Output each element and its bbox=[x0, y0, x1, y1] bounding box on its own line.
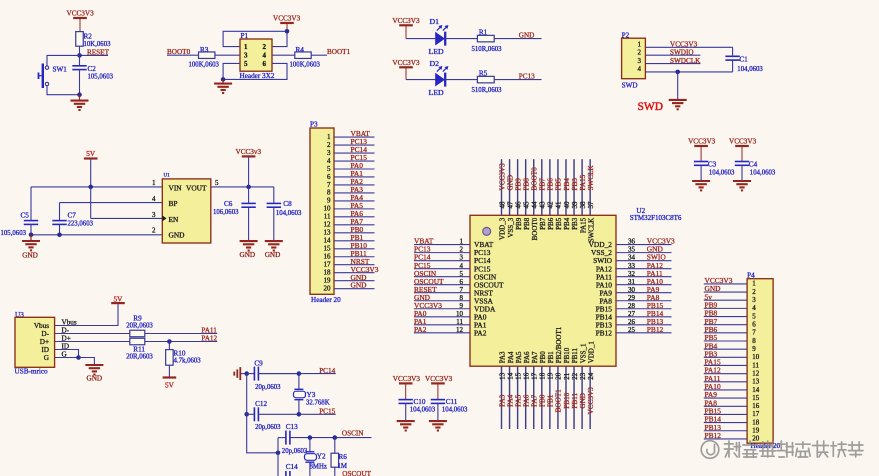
svg-text:OSCOUT: OSCOUT bbox=[342, 470, 371, 476]
svg-text:D+: D+ bbox=[40, 338, 49, 346]
svg-text:C14: C14 bbox=[286, 463, 298, 471]
svg-text:5: 5 bbox=[244, 60, 248, 68]
svg-text:20R,0603: 20R,0603 bbox=[126, 323, 153, 330]
svg-text:R9: R9 bbox=[133, 315, 142, 323]
svg-text:38: 38 bbox=[579, 201, 587, 209]
svg-text:GND: GND bbox=[519, 32, 535, 40]
svg-text:44: 44 bbox=[531, 201, 539, 209]
svg-text:39: 39 bbox=[571, 201, 579, 209]
svg-text:106,0603: 106,0603 bbox=[213, 209, 239, 216]
svg-text:2: 2 bbox=[752, 288, 756, 296]
svg-text:47: 47 bbox=[506, 201, 514, 209]
svg-text:21: 21 bbox=[563, 372, 571, 380]
svg-text:105,0603: 105,0603 bbox=[1, 230, 27, 237]
svg-text:GND: GND bbox=[240, 251, 256, 259]
svg-text:36: 36 bbox=[628, 238, 636, 246]
svg-text:4.7k,0603: 4.7k,0603 bbox=[174, 358, 202, 365]
svg-text:PB8: PB8 bbox=[522, 178, 530, 191]
svg-text:GND: GND bbox=[22, 251, 38, 259]
svg-text:OSCIN: OSCIN bbox=[342, 429, 364, 437]
svg-text:8: 8 bbox=[460, 294, 464, 302]
svg-text:D-: D- bbox=[41, 330, 49, 338]
svg-text:11: 11 bbox=[752, 361, 759, 369]
svg-text:C7: C7 bbox=[68, 212, 77, 220]
svg-text:PB2/BOOT1: PB2/BOOT1 bbox=[555, 326, 563, 363]
svg-text:PB0: PB0 bbox=[539, 351, 547, 364]
svg-text:PA15: PA15 bbox=[579, 174, 587, 190]
svg-text:C3: C3 bbox=[708, 160, 717, 168]
svg-text:17: 17 bbox=[752, 410, 760, 418]
svg-text:13: 13 bbox=[324, 229, 332, 237]
svg-text:C9: C9 bbox=[254, 360, 263, 368]
svg-text:VDD_1: VDD_1 bbox=[587, 341, 595, 364]
svg-text:104,0603: 104,0603 bbox=[737, 66, 763, 73]
svg-text:PB5: PB5 bbox=[555, 217, 563, 230]
svg-text:VCC3V3: VCC3V3 bbox=[670, 41, 698, 49]
svg-text:104,0603: 104,0603 bbox=[442, 407, 468, 414]
svg-text:5: 5 bbox=[215, 179, 219, 187]
svg-text:30: 30 bbox=[628, 286, 636, 294]
svg-text:34: 34 bbox=[628, 254, 636, 262]
svg-text:PA5: PA5 bbox=[514, 394, 522, 407]
svg-text:12: 12 bbox=[752, 369, 760, 377]
svg-text:4: 4 bbox=[152, 195, 156, 203]
svg-text:1: 1 bbox=[152, 179, 156, 187]
svg-text:PB11: PB11 bbox=[571, 347, 579, 363]
svg-text:PA7: PA7 bbox=[531, 351, 539, 363]
svg-text:D1: D1 bbox=[430, 17, 440, 26]
svg-text:10: 10 bbox=[752, 353, 760, 361]
svg-text:PA2: PA2 bbox=[474, 328, 487, 337]
svg-text:SWD: SWD bbox=[622, 82, 638, 90]
svg-text:BOOT0: BOOT0 bbox=[531, 167, 539, 191]
svg-text:C11: C11 bbox=[446, 398, 458, 406]
svg-text:VCC3V3: VCC3V3 bbox=[587, 387, 595, 415]
svg-text:17: 17 bbox=[531, 372, 539, 380]
svg-text:PB0: PB0 bbox=[539, 394, 547, 407]
svg-text:3: 3 bbox=[327, 149, 331, 157]
svg-text:1: 1 bbox=[460, 238, 464, 246]
svg-text:VIN: VIN bbox=[169, 183, 183, 192]
svg-text:5: 5 bbox=[327, 165, 331, 173]
svg-text:R1: R1 bbox=[479, 28, 488, 36]
svg-text:VCC3v3: VCC3v3 bbox=[236, 148, 262, 156]
svg-text:23: 23 bbox=[579, 372, 587, 380]
svg-text:9: 9 bbox=[327, 197, 331, 205]
svg-text:GND: GND bbox=[351, 281, 368, 290]
svg-text:19: 19 bbox=[547, 372, 555, 380]
svg-text:15: 15 bbox=[324, 245, 332, 253]
svg-text:3: 3 bbox=[638, 57, 642, 65]
svg-text:4: 4 bbox=[327, 157, 331, 165]
svg-text:3: 3 bbox=[244, 52, 248, 60]
svg-text:29: 29 bbox=[628, 294, 636, 302]
svg-text:8: 8 bbox=[327, 189, 331, 197]
svg-text:SWCLK: SWCLK bbox=[587, 165, 595, 191]
svg-text:PA3: PA3 bbox=[499, 351, 507, 363]
svg-text:2: 2 bbox=[638, 49, 642, 57]
svg-text:17: 17 bbox=[324, 261, 332, 269]
svg-text:STM32F103C8T6: STM32F103C8T6 bbox=[630, 214, 682, 222]
svg-text:6: 6 bbox=[752, 320, 756, 328]
svg-text:PA6: PA6 bbox=[522, 394, 530, 407]
svg-text:6: 6 bbox=[263, 60, 267, 68]
svg-text:Y2: Y2 bbox=[317, 453, 326, 461]
svg-text:10: 10 bbox=[324, 205, 332, 213]
svg-text:42: 42 bbox=[547, 201, 555, 209]
svg-text:PB8: PB8 bbox=[523, 217, 531, 230]
svg-text:14: 14 bbox=[324, 237, 332, 245]
svg-text:GND: GND bbox=[506, 175, 514, 191]
svg-text:C5: C5 bbox=[21, 212, 30, 220]
svg-text:SWCLK: SWCLK bbox=[587, 218, 595, 243]
svg-text:104,0603: 104,0603 bbox=[750, 169, 776, 176]
svg-text:PB6: PB6 bbox=[547, 217, 555, 230]
svg-text:100K,0603: 100K,0603 bbox=[290, 62, 321, 69]
svg-text:1: 1 bbox=[327, 133, 331, 141]
svg-text:GND: GND bbox=[265, 251, 281, 259]
svg-text:40: 40 bbox=[563, 201, 571, 209]
svg-text:PB12: PB12 bbox=[596, 328, 613, 337]
svg-text:8MHz: 8MHz bbox=[310, 464, 327, 471]
svg-text:7: 7 bbox=[327, 181, 331, 189]
svg-text:37: 37 bbox=[587, 201, 595, 209]
svg-text:PA2: PA2 bbox=[414, 325, 427, 334]
svg-text:223,0603: 223,0603 bbox=[68, 220, 94, 227]
svg-text:PB5: PB5 bbox=[555, 178, 563, 191]
svg-text:PA3: PA3 bbox=[498, 394, 506, 407]
svg-text:Header 3X2: Header 3X2 bbox=[240, 72, 275, 80]
svg-text:BP: BP bbox=[169, 199, 178, 208]
svg-text:4: 4 bbox=[638, 65, 642, 73]
svg-text:PA6: PA6 bbox=[523, 351, 531, 363]
svg-text:PB12: PB12 bbox=[705, 431, 722, 440]
svg-text:D2: D2 bbox=[430, 59, 440, 68]
svg-text:VOUT: VOUT bbox=[186, 183, 207, 192]
svg-text:SWD: SWD bbox=[638, 101, 664, 113]
svg-text:G: G bbox=[44, 354, 49, 362]
svg-text:C10: C10 bbox=[414, 398, 426, 406]
svg-text:43: 43 bbox=[539, 201, 547, 209]
svg-text:GND: GND bbox=[169, 231, 186, 240]
svg-text:R10: R10 bbox=[174, 350, 186, 358]
svg-text:3: 3 bbox=[460, 254, 464, 262]
svg-text:41: 41 bbox=[555, 201, 563, 209]
svg-text:PB11: PB11 bbox=[571, 393, 579, 409]
svg-text:C1: C1 bbox=[739, 55, 748, 63]
svg-text:1: 1 bbox=[638, 41, 642, 49]
svg-text:7: 7 bbox=[460, 286, 464, 294]
svg-text:R3: R3 bbox=[200, 46, 209, 54]
svg-text:PB6: PB6 bbox=[547, 178, 555, 191]
svg-text:11: 11 bbox=[324, 213, 331, 221]
svg-text:GND: GND bbox=[87, 375, 103, 383]
svg-text:PA5: PA5 bbox=[515, 351, 523, 363]
svg-text:16: 16 bbox=[522, 372, 530, 380]
svg-text:SWDIO: SWDIO bbox=[670, 48, 694, 56]
svg-text:PB1: PB1 bbox=[547, 394, 555, 407]
svg-text:USB-mrico: USB-mrico bbox=[15, 367, 49, 375]
svg-text:18: 18 bbox=[539, 372, 547, 380]
svg-text:VCC3V3: VCC3V3 bbox=[393, 375, 421, 383]
svg-text:BOOT1: BOOT1 bbox=[327, 48, 351, 56]
svg-text:VCC3V3: VCC3V3 bbox=[392, 17, 420, 25]
svg-text:SW1: SW1 bbox=[53, 65, 68, 73]
svg-text:1: 1 bbox=[244, 43, 248, 51]
svg-text:R2: R2 bbox=[84, 33, 93, 41]
svg-text:4: 4 bbox=[460, 262, 464, 270]
svg-text:PA15: PA15 bbox=[579, 217, 587, 233]
svg-text:C13: C13 bbox=[286, 423, 298, 431]
svg-text:15: 15 bbox=[514, 372, 522, 380]
svg-text:GND: GND bbox=[579, 393, 587, 409]
svg-text:U1: U1 bbox=[164, 174, 171, 179]
svg-text:14: 14 bbox=[506, 372, 514, 380]
svg-text:VCC3V3: VCC3V3 bbox=[729, 138, 757, 146]
svg-text:32: 32 bbox=[628, 270, 636, 278]
svg-text:16: 16 bbox=[324, 253, 332, 261]
svg-text:VSS_3: VSS_3 bbox=[507, 217, 515, 237]
svg-text:Y3: Y3 bbox=[307, 391, 316, 399]
svg-text:13: 13 bbox=[498, 372, 506, 380]
svg-text:510R,0603: 510R,0603 bbox=[472, 46, 503, 53]
svg-text:R11: R11 bbox=[133, 345, 145, 353]
svg-text:9: 9 bbox=[752, 345, 756, 353]
svg-text:BOOT1: BOOT1 bbox=[555, 389, 563, 413]
svg-text:104,0603: 104,0603 bbox=[709, 169, 735, 176]
svg-text:7: 7 bbox=[752, 329, 756, 337]
svg-text:20p,0603: 20p,0603 bbox=[255, 424, 281, 431]
svg-text:PB10: PB10 bbox=[563, 392, 571, 408]
svg-text:PB10: PB10 bbox=[563, 347, 571, 363]
svg-text:100K,0603: 100K,0603 bbox=[189, 62, 220, 69]
svg-text:Header 20: Header 20 bbox=[311, 296, 341, 304]
svg-text:PB3: PB3 bbox=[571, 217, 579, 230]
svg-text:28: 28 bbox=[628, 302, 636, 310]
svg-text:104,0603: 104,0603 bbox=[410, 407, 436, 414]
svg-text:3: 3 bbox=[152, 211, 156, 219]
svg-text:26: 26 bbox=[628, 318, 636, 326]
svg-text:C2: C2 bbox=[88, 65, 97, 73]
svg-text:20R,0603: 20R,0603 bbox=[126, 354, 153, 361]
svg-text:C8: C8 bbox=[283, 200, 292, 208]
svg-text:PA4: PA4 bbox=[506, 394, 514, 407]
svg-text:1: 1 bbox=[752, 280, 756, 288]
svg-text:20p,0603: 20p,0603 bbox=[255, 384, 281, 391]
svg-text:27: 27 bbox=[628, 310, 636, 318]
svg-text:VCC3V3: VCC3V3 bbox=[425, 375, 453, 383]
svg-text:PC13: PC13 bbox=[519, 73, 535, 81]
svg-text:9: 9 bbox=[460, 302, 464, 310]
svg-text:C6: C6 bbox=[224, 200, 233, 208]
svg-text:5: 5 bbox=[460, 270, 464, 278]
svg-text:VCC3V3: VCC3V3 bbox=[273, 15, 301, 23]
svg-text:11: 11 bbox=[456, 318, 463, 326]
svg-text:20: 20 bbox=[324, 284, 332, 292]
svg-text:20p,0603: 20p,0603 bbox=[282, 448, 308, 455]
svg-text:PB4: PB4 bbox=[563, 217, 571, 230]
svg-text:3: 3 bbox=[752, 296, 756, 304]
svg-text:5V: 5V bbox=[165, 382, 175, 390]
svg-text:10: 10 bbox=[456, 310, 464, 318]
svg-text:32.768K: 32.768K bbox=[306, 400, 330, 407]
svg-text:BOOT0: BOOT0 bbox=[531, 217, 539, 240]
svg-text:SWDCLK: SWDCLK bbox=[670, 57, 701, 65]
svg-text:ID: ID bbox=[41, 346, 49, 354]
svg-text:33: 33 bbox=[628, 262, 636, 270]
svg-text:18: 18 bbox=[324, 268, 332, 276]
svg-text:PB3: PB3 bbox=[571, 178, 579, 191]
svg-text:6: 6 bbox=[327, 173, 331, 181]
svg-text:2: 2 bbox=[327, 141, 331, 149]
svg-text:35: 35 bbox=[628, 246, 636, 254]
svg-text:PB9: PB9 bbox=[514, 178, 522, 191]
svg-text:8: 8 bbox=[752, 337, 756, 345]
svg-text:13: 13 bbox=[752, 378, 760, 386]
svg-text:18: 18 bbox=[752, 418, 760, 426]
svg-text:PA11: PA11 bbox=[201, 326, 217, 334]
svg-text:VCC3V3: VCC3V3 bbox=[688, 138, 716, 146]
svg-text:48: 48 bbox=[498, 201, 506, 209]
svg-text:22: 22 bbox=[571, 372, 579, 380]
svg-text:PB7: PB7 bbox=[539, 217, 547, 230]
svg-text:510R,0603: 510R,0603 bbox=[472, 87, 503, 94]
svg-text:25: 25 bbox=[628, 326, 636, 334]
svg-text:2: 2 bbox=[460, 246, 464, 254]
svg-text:PB1: PB1 bbox=[547, 351, 555, 364]
svg-text:LED: LED bbox=[429, 88, 445, 97]
svg-text:VCC3V3: VCC3V3 bbox=[392, 59, 420, 67]
svg-text:C4: C4 bbox=[749, 160, 758, 168]
svg-text:20: 20 bbox=[555, 372, 563, 380]
svg-text:R4: R4 bbox=[296, 46, 305, 54]
svg-text:PA12: PA12 bbox=[201, 335, 217, 343]
svg-text:6: 6 bbox=[460, 278, 464, 286]
svg-text:Vbus: Vbus bbox=[34, 322, 49, 330]
svg-text:PA7: PA7 bbox=[531, 394, 539, 407]
svg-text:19: 19 bbox=[324, 276, 332, 284]
svg-text:2: 2 bbox=[152, 227, 156, 235]
svg-text:12: 12 bbox=[456, 326, 464, 334]
svg-text:PB7: PB7 bbox=[539, 178, 547, 191]
svg-text:5V: 5V bbox=[86, 150, 96, 158]
svg-text:4: 4 bbox=[752, 304, 756, 312]
svg-text:105,0603: 105,0603 bbox=[88, 73, 114, 80]
svg-text:10K,0603: 10K,0603 bbox=[84, 41, 112, 48]
svg-text:2: 2 bbox=[263, 43, 267, 51]
svg-text:4: 4 bbox=[263, 52, 267, 60]
svg-text:LED: LED bbox=[429, 47, 445, 56]
svg-text:104,0603: 104,0603 bbox=[276, 210, 302, 217]
svg-text:PB12: PB12 bbox=[647, 325, 664, 334]
svg-text:VSS_1: VSS_1 bbox=[579, 343, 587, 363]
svg-text:VDD_3: VDD_3 bbox=[499, 217, 507, 240]
svg-text:12: 12 bbox=[324, 221, 332, 229]
svg-text:PA4: PA4 bbox=[507, 351, 515, 363]
svg-text:R6: R6 bbox=[339, 453, 348, 461]
svg-text:19: 19 bbox=[752, 427, 760, 435]
svg-text:24: 24 bbox=[587, 372, 595, 380]
svg-text:VCC3V3: VCC3V3 bbox=[498, 163, 506, 191]
svg-text:15: 15 bbox=[752, 394, 760, 402]
svg-text:PB4: PB4 bbox=[563, 178, 571, 191]
svg-text:46: 46 bbox=[514, 201, 522, 209]
svg-text:16: 16 bbox=[752, 402, 760, 410]
svg-text:P1: P1 bbox=[241, 32, 249, 40]
svg-text:C12: C12 bbox=[255, 400, 267, 408]
svg-text:14: 14 bbox=[752, 386, 760, 394]
svg-text:PB9: PB9 bbox=[515, 217, 523, 230]
svg-text:PC15: PC15 bbox=[319, 408, 335, 416]
svg-text:R5: R5 bbox=[479, 69, 488, 77]
svg-text:VCC3V3: VCC3V3 bbox=[67, 10, 95, 18]
svg-text:EN: EN bbox=[169, 215, 180, 224]
svg-text:PC14: PC14 bbox=[319, 367, 335, 375]
svg-text:45: 45 bbox=[522, 201, 530, 209]
svg-text:31: 31 bbox=[628, 278, 636, 286]
svg-text:5: 5 bbox=[752, 312, 756, 320]
